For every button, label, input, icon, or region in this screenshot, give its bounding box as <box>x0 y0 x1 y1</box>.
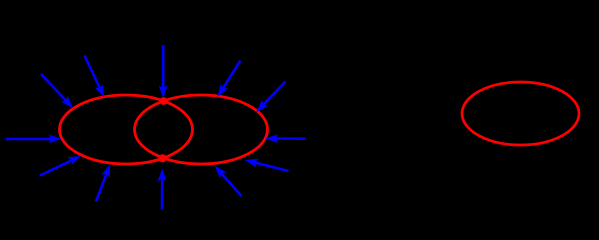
arrow top-center <box>159 45 168 98</box>
arrow upper-right inner <box>218 61 241 98</box>
arrow upper-right outer <box>256 82 285 113</box>
left ellipse of pair <box>60 95 193 164</box>
arrow bottom-center <box>158 168 167 209</box>
bottom intersection node <box>159 154 167 162</box>
right figure: single relaxed ellipse <box>462 82 579 145</box>
arrow lower-right outer <box>245 159 289 171</box>
arrow lower-right inner <box>215 166 242 197</box>
left figure: two intersecting ellipses squeezed by inward arrows <box>6 45 306 210</box>
arrow lower-left outer <box>40 156 81 176</box>
arrow right-horizontal <box>265 134 305 143</box>
arrow lower-left inner <box>96 164 110 202</box>
arrow left-horizontal <box>6 135 62 144</box>
top intersection node <box>160 97 168 105</box>
arrow upper-left inner <box>85 56 105 98</box>
single ellipse <box>462 82 579 145</box>
arrow upper-left outer <box>41 74 73 108</box>
right ellipse of pair <box>135 95 268 164</box>
